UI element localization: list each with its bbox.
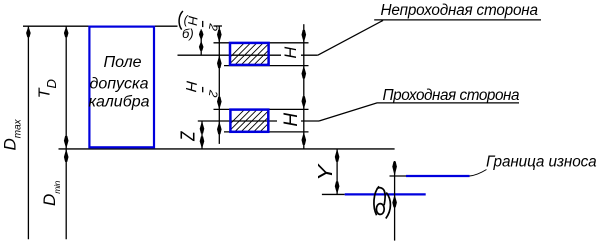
arrow up at top of D_max line <box>26 26 31 37</box>
arrow up at centerline on Z line <box>200 121 205 134</box>
hatching rect2 <box>222 107 291 132</box>
arrows on b line <box>392 162 397 177</box>
arrow down at D_min on T_D line <box>64 136 69 149</box>
wire: small dim vertical at x201 <box>200 29 202 55</box>
box: Pole dopuska kalibra <box>89 27 154 148</box>
svg-text:Поле: Поле <box>103 54 141 71</box>
arrows on Y line <box>335 149 340 162</box>
wire: small tick at top of H/2 dimension <box>214 25 223 27</box>
arrows on x219 line <box>217 30 222 43</box>
svg-text:Z: Z <box>176 131 198 142</box>
wire: leader to label Nepr <box>318 20 383 55</box>
wire: rect2 bottom level line <box>224 131 309 133</box>
wire: T_D / D_min dimension vertical <box>65 26 67 239</box>
wire: leader curve to Granitsa iznosa <box>470 170 487 177</box>
hatching rect1 <box>222 40 291 65</box>
wire: D_max dimension vertical <box>27 26 29 239</box>
arrow up below D_min on D_min dim line <box>64 149 69 162</box>
svg-text:Н: Н <box>281 113 302 127</box>
wire: H dimension vertical at x304 <box>303 24 305 149</box>
wire: wear limit lower line blue part <box>345 193 426 195</box>
arrows on x304 H line <box>302 30 307 43</box>
go gauge rect2 <box>230 110 268 132</box>
label: bottom (b) <box>374 186 391 218</box>
node: centerline of no-go gauge field <box>178 54 282 56</box>
wire: wear limit upper line blue part <box>406 175 470 177</box>
svg-text:Граница износа: Граница износа <box>486 154 597 171</box>
wire: b dimension vertical <box>394 161 396 241</box>
svg-text:Н: Н <box>182 80 200 92</box>
no-go gauge rect1 <box>230 43 269 65</box>
svg-text:калибра: калибра <box>89 94 150 111</box>
svg-text:Непроходная сторона: Непроходная сторона <box>381 2 538 19</box>
wire: D_max level line top-left <box>23 25 178 27</box>
arrow up at top of T_D line <box>64 26 69 37</box>
wire: Y dimension vertical <box>336 149 338 195</box>
wire: wear limit lower line black part <box>322 193 345 195</box>
arrow down at D_min on Z line <box>200 136 205 149</box>
svg-text:б): б) <box>182 26 194 41</box>
wire: Z dimension vertical <box>201 121 203 149</box>
wire: D_min level line <box>59 148 395 150</box>
label: top cluster (H/2 b) <box>179 11 183 30</box>
wire: wear limit upper line black part <box>390 175 407 177</box>
svg-text:Y: Y <box>314 163 337 181</box>
svg-text:Н: Н <box>282 47 300 59</box>
wire: rect1 top level line <box>214 42 309 44</box>
wire: H/2 dimension vertical at x219 <box>218 26 220 144</box>
arrow pair tip to tip on x201 <box>199 31 204 41</box>
node: centerline of go gauge field <box>198 120 277 122</box>
svg-text:допуска: допуска <box>90 76 149 93</box>
wire: rect2 top level line <box>214 108 309 110</box>
wire: leader to label Prokh <box>319 103 519 121</box>
wire: rect1 bottom level line <box>224 65 309 67</box>
svg-text:Проходная сторона: Проходная сторона <box>383 87 520 104</box>
